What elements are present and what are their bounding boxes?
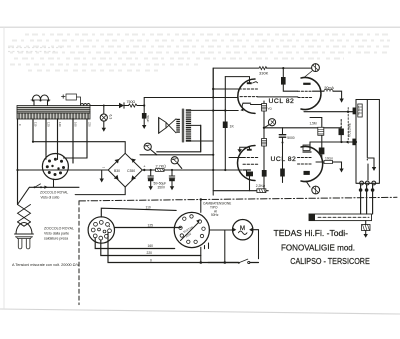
svg-text:110: 110 [146,206,151,210]
svg-text:TEDAS Hi.Fi. -Todi-: TEDAS Hi.Fi. -Todi- [274,228,349,238]
svg-text:220: 220 [147,251,153,255]
svg-text:∼: ∼ [102,164,105,169]
svg-text:50Hz: 50Hz [211,213,219,217]
svg-text:ZOCCOLO ROYAL: ZOCCOLO ROYAL [40,191,68,195]
svg-text:160: 160 [148,244,154,248]
svg-text:VOLUME: VOLUME [348,122,352,137]
svg-text:UCL 82: UCL 82 [269,98,295,105]
svg-text:1,5M: 1,5M [310,122,317,126]
svg-text:750Ω: 750Ω [127,100,136,104]
svg-text:0: 0 [18,124,22,126]
svg-text:50μF: 50μF [146,116,150,123]
svg-text:Visto di sotto: Visto di sotto [41,195,60,199]
svg-text:125: 125 [47,122,51,127]
svg-text:A Tensioni misurate con vo: A Tensioni misurate con volt. 20000 Ω/V [12,263,80,267]
svg-text:2,2KΩ: 2,2KΩ [256,184,266,188]
svg-text:saldature presa: saldature presa [44,237,68,241]
svg-text:VΩ: VΩ [268,107,273,111]
svg-text:5000: 5000 [287,136,295,140]
svg-text:+: + [143,164,146,169]
svg-text:220: 220 [88,122,92,127]
svg-text:110: 110 [34,122,38,127]
svg-text:2,7KΩ: 2,7KΩ [156,164,167,168]
svg-text:330K: 330K [259,71,269,76]
svg-text:FONOVALIGIE mod.: FONOVALIGIE mod. [281,243,355,253]
svg-text:140: 140 [58,122,62,127]
svg-text:1K: 1K [230,125,235,129]
svg-text:6,3: 6,3 [109,115,113,120]
svg-text:0: 0 [150,258,152,262]
svg-text:10Ωn: 10Ωn [325,157,333,161]
svg-text:160: 160 [74,122,78,127]
svg-text:50mA: 50mA [325,86,335,90]
svg-text:UCL 82: UCL 82 [271,156,297,163]
svg-text:ZOCCOLO ROYAL: ZOCCOLO ROYAL [44,227,74,231]
svg-text:Visto dalla parte: Visto dalla parte [44,232,69,236]
svg-text:CALIPSO - TERSICORE: CALIPSO - TERSICORE [290,256,370,266]
svg-text:125: 125 [148,223,154,227]
svg-text:M: M [240,225,245,232]
svg-text:B30: B30 [114,169,120,173]
svg-text:ALTOP.: ALTOP. [357,105,361,115]
svg-text:C350: C350 [127,169,135,173]
svg-text:350V: 350V [158,185,166,189]
